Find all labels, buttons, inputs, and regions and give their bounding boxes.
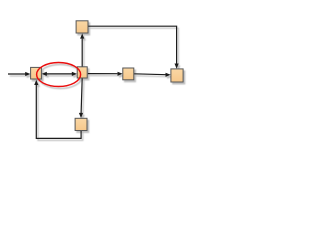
wire: Btop right, corner, down into B4 [88,26,179,68]
wire: arrow B3 to B4 [134,73,171,77]
wire: arrow B2 to B3 [88,72,123,76]
wire: feedback B5 down, left, up into B1 [34,80,81,139]
wire: arrow B2 up to Btop [80,33,84,66]
wire: double-headed arrow between B1 and B2 (highlighted) [42,72,77,76]
block B4 [171,69,183,82]
block Btop [76,21,88,33]
wire: arrow B2 down to B5 [79,78,83,118]
wire: input arrow into block B1 [8,72,30,76]
block B1 [31,67,42,79]
block B5 [75,118,87,130]
block B3 [123,68,134,80]
block B2 [77,67,87,78]
red highlight ellipse [37,63,81,87]
